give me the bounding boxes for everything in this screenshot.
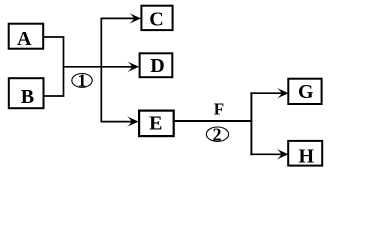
wire with arrow into G [250,88,288,98]
box C [141,6,172,31]
box A [9,24,44,50]
wire with arrow into H [250,149,288,159]
svg-text:B: B [21,86,34,108]
bracket vertical [63,36,65,96]
box B [9,78,44,108]
svg-text:C: C [149,8,163,30]
wire A to bracket [44,36,65,38]
wire E to right bracket (F line) [175,120,253,122]
box G [288,79,321,104]
label circled 1 [72,71,92,91]
svg-text:D: D [150,55,164,77]
trunk wire with arrow into D [64,62,140,72]
svg-text:H: H [299,145,315,167]
svg-text:F: F [214,100,224,119]
svg-text:1: 1 [78,71,87,91]
branch vertical [100,18,102,123]
wire with arrow into C [101,13,141,23]
label circled 2 [206,124,228,144]
wire with arrow into E [101,116,139,126]
svg-text:A: A [17,28,32,50]
svg-text:E: E [149,112,162,134]
svg-text:2: 2 [213,124,222,144]
box D [140,53,173,77]
box E [139,111,174,137]
right bracket vertical [250,92,252,155]
wire B to bracket [44,95,65,97]
svg-text:G: G [298,81,314,103]
box H [288,141,322,168]
